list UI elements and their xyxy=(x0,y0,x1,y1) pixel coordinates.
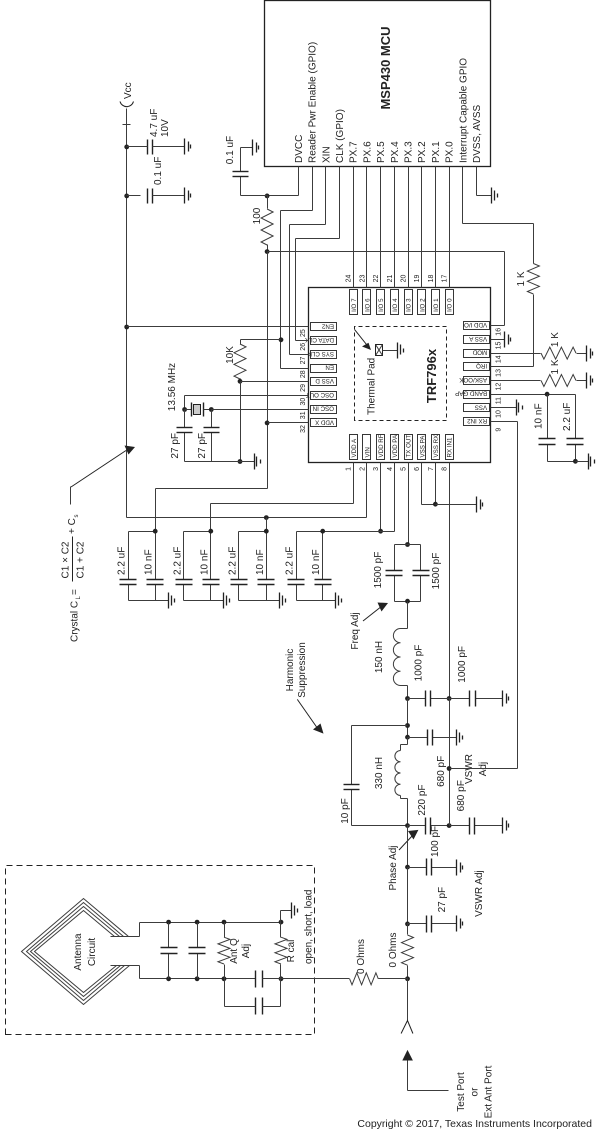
capacitor 1500 pF (upper) xyxy=(395,544,421,546)
wire main line west xyxy=(407,826,409,868)
svg-text:2.2 uF: 2.2 uF xyxy=(172,547,183,575)
capacitor 10 pF xyxy=(351,790,353,826)
ground (R cal) xyxy=(291,903,293,919)
svg-text:PX.4: PX.4 xyxy=(390,141,401,163)
svg-text:Phase Adj: Phase Adj xyxy=(388,845,399,890)
svg-text:RX IN2: RX IN2 xyxy=(467,417,488,424)
svg-text:PX.6: PX.6 xyxy=(362,141,373,163)
polarity + mark xyxy=(123,124,131,126)
capacitor 2.2 uF (pair 4) xyxy=(296,585,298,601)
Phase Adj arrow xyxy=(399,835,413,850)
ground (MOD 1K) xyxy=(586,346,588,362)
svg-text:PX.1: PX.1 xyxy=(431,141,442,163)
svg-text:15: 15 xyxy=(496,342,503,350)
wire TX_OUT xyxy=(408,463,410,545)
wire BAND_GAP ground bar xyxy=(548,461,576,463)
svg-text:27 pF: 27 pF xyxy=(170,433,181,459)
wire CLK to DATA_CLK xyxy=(339,167,341,239)
svg-text:5: 5 xyxy=(401,467,408,471)
formula arrow xyxy=(70,487,72,505)
svg-text:1: 1 xyxy=(346,467,353,471)
svg-text:2.2 uF: 2.2 uF xyxy=(562,403,573,431)
wire pair 3 tie xyxy=(239,531,267,533)
svg-text:150 nH: 150 nH xyxy=(374,641,385,673)
antenna dashed box xyxy=(6,866,315,1035)
capacitor C2 27 pF xyxy=(211,433,213,462)
wire pair 2 ground bar xyxy=(184,600,211,602)
TRF pin box OSC_IN (top) xyxy=(311,406,337,414)
wire RX_IN1 xyxy=(449,463,451,699)
svg-text:VSS RX: VSS RX xyxy=(433,435,440,458)
svg-text:30: 30 xyxy=(300,398,307,406)
resistor 0 Ohms (series) xyxy=(407,924,409,935)
wire VDD rail to pair1 xyxy=(156,488,268,490)
inductor 150 nH xyxy=(393,629,400,686)
node TX 1000pF junction xyxy=(405,696,410,701)
node VSS_RX junction xyxy=(433,502,438,507)
wire PX.1 to I/O_1 xyxy=(435,167,437,288)
ground (pair 4) xyxy=(335,593,337,609)
wire PX.5 to I/O_5 xyxy=(380,167,382,288)
TRF pin box VSS_PA (left) xyxy=(418,435,426,460)
svg-text:0.1 uF: 0.1 uF xyxy=(153,157,164,185)
svg-text:27 pF: 27 pF xyxy=(437,887,448,913)
wire VDD rail xyxy=(267,252,269,489)
svg-text:1 K: 1 K xyxy=(516,271,527,286)
svg-text:Suppression: Suppression xyxy=(297,642,308,698)
node crystal ground rail junction xyxy=(238,459,243,464)
svg-text:9: 9 xyxy=(496,428,503,432)
ground (pair 1) xyxy=(168,593,170,609)
svg-text:27 pF: 27 pF xyxy=(197,433,208,459)
resistor 100 xyxy=(267,196,269,209)
svg-text:+ C: + C xyxy=(67,518,78,534)
TRF pin box RX_IN1 (left) xyxy=(446,435,454,460)
node pair4 tie bottom xyxy=(320,529,325,534)
TRF pin box VDD_PA (left) xyxy=(391,435,399,460)
svg-text:10: 10 xyxy=(496,410,503,418)
svg-text:DATA CLK: DATA CLK xyxy=(304,336,334,343)
wire pair 3 ground bar xyxy=(239,600,267,602)
svg-text:Copyright © 2017, Texas Instru: Copyright © 2017, Texas Instruments Inco… xyxy=(357,1118,592,1130)
wire pair 4 ground bar xyxy=(297,600,323,602)
svg-text:IRQ: IRQ xyxy=(476,362,487,369)
wire 10K to crystal ground rail xyxy=(240,382,242,462)
wire VDD_I/O feed xyxy=(268,251,505,253)
capacitor C1 27 pF xyxy=(184,433,186,462)
svg-text:26: 26 xyxy=(300,343,307,351)
svg-text:R cal: R cal xyxy=(286,940,297,963)
svg-text:17: 17 xyxy=(442,275,449,283)
svg-text:Harmonic: Harmonic xyxy=(285,649,296,692)
ground (VSS pin10) xyxy=(516,400,518,416)
svg-text:3: 3 xyxy=(373,467,380,471)
thermal pad ground xyxy=(397,343,399,359)
wire pair 1 tie xyxy=(129,531,156,533)
svg-text:VDD X: VDD X xyxy=(315,418,334,425)
svg-text:Interrupt Capable GPIO: Interrupt Capable GPIO xyxy=(458,58,469,163)
TRF pin box DATA_CLK (top) xyxy=(311,337,337,345)
capacitor 2.2 uF (pair 3) xyxy=(238,585,240,601)
svg-text:0 Ohms: 0 Ohms xyxy=(356,939,367,974)
svg-text:16: 16 xyxy=(496,328,503,336)
node 1500pF left xyxy=(405,599,410,604)
TRF pin box I/O_3 (right) xyxy=(405,290,413,315)
node rail dots xyxy=(166,920,171,925)
svg-text:or: or xyxy=(470,1087,481,1097)
TRF pin box MOD (bottom) xyxy=(464,350,490,358)
wire VSS pin10 xyxy=(491,407,517,409)
node 10pF branch xyxy=(405,723,410,728)
resistor Ant Q Adj xyxy=(224,965,226,979)
svg-text:10K: 10K xyxy=(225,346,236,364)
node VDD_RF junction xyxy=(378,529,383,534)
ground (VSS_PA/RX) xyxy=(476,497,478,513)
node pair2 feed xyxy=(208,529,213,534)
svg-text:22: 22 xyxy=(373,275,380,283)
svg-text:OSC OUT: OSC OUT xyxy=(306,391,334,398)
node pair3 tie junction xyxy=(264,529,269,534)
TRF pin box VIN (left) xyxy=(363,435,371,460)
svg-text:DVCC: DVCC xyxy=(294,135,305,163)
wire VDD_A to pair2 xyxy=(353,463,355,504)
capacitor 10 nF (BAND_GAP) xyxy=(547,445,549,462)
TRF pin box I/O_1 (right) xyxy=(432,290,440,315)
capacitor 220 pF xyxy=(408,825,426,827)
svg-text:8: 8 xyxy=(442,467,449,471)
antenna tap terminators xyxy=(111,936,140,938)
wire OSC_OUT xyxy=(185,395,309,397)
capacitor 10 nF (pair 3) xyxy=(266,585,268,601)
crystal Y1 13.56 MHz xyxy=(185,409,192,411)
svg-text:EN2: EN2 xyxy=(321,322,334,329)
capacitor 100 pF xyxy=(408,867,427,869)
svg-text:1000 pF: 1000 pF xyxy=(457,646,468,683)
svg-text:Ext Ant Port: Ext Ant Port xyxy=(484,1065,495,1118)
svg-text:10 nF: 10 nF xyxy=(534,403,545,429)
wire XIN to SYS_CLK xyxy=(325,167,327,225)
wire BAND_GAP xyxy=(491,394,576,396)
wire RX line xyxy=(449,699,451,826)
wire PX.3 to I/O_3 xyxy=(408,167,410,288)
TRF pin box VSS_RX (left) xyxy=(432,435,440,460)
wire antenna top rail xyxy=(140,922,281,924)
svg-text:27: 27 xyxy=(300,357,307,365)
TRF pin box VSS_A (bottom) xyxy=(464,336,490,344)
wire VSS_D stub xyxy=(241,381,309,383)
TRF pin box OSC_OUT (top) xyxy=(311,392,337,400)
svg-text:20: 20 xyxy=(401,275,408,283)
wire pair4 to VDD_RF/PA xyxy=(323,531,381,533)
svg-text:RX IN1: RX IN1 xyxy=(447,437,454,458)
svg-text:1500 pF: 1500 pF xyxy=(373,552,384,589)
capacitor antenna C b xyxy=(197,954,199,979)
wire EN2 to Vcc xyxy=(127,326,309,328)
svg-text:10 nF: 10 nF xyxy=(255,549,266,575)
svg-text:11: 11 xyxy=(496,397,503,404)
wire to test port arrow xyxy=(407,979,409,1021)
svg-text:6: 6 xyxy=(414,467,421,471)
svg-text:1 K: 1 K xyxy=(550,332,561,347)
capacitor 10 nF (pair 4) xyxy=(322,585,324,601)
resistor 10K xyxy=(241,339,281,341)
thermal pad dashed box xyxy=(355,327,447,421)
svg-text:VSS PA: VSS PA xyxy=(419,435,426,458)
wire PX.4 to I/O_4 xyxy=(394,167,396,288)
capacitor tuning C (series) xyxy=(255,971,257,988)
svg-text:Adj: Adj xyxy=(241,944,252,958)
node 220pF top xyxy=(405,823,410,828)
svg-text:PX.0: PX.0 xyxy=(445,141,456,163)
wire 1K to Interrupt GPIO xyxy=(533,224,535,264)
svg-text:=: = xyxy=(70,589,81,595)
svg-text:TRF796x: TRF796x xyxy=(424,348,439,403)
TRF pin box BAND_GAP (bottom) xyxy=(464,391,490,399)
ground (Vcc 0.1uF) xyxy=(184,188,186,204)
wire OSC_IN xyxy=(212,409,309,411)
wire MCU decoupling branch xyxy=(241,195,268,197)
ground (BAND_GAP) xyxy=(588,454,590,470)
wire 1500pF left bus xyxy=(395,601,421,603)
TRF pin box EN (top) xyxy=(311,365,337,373)
svg-text:31: 31 xyxy=(300,411,307,419)
node crystal top xyxy=(182,407,187,412)
wire TX to 330nH xyxy=(407,738,409,745)
svg-text:1500 pF: 1500 pF xyxy=(431,553,442,590)
resistor 1K (ASK/OOK) xyxy=(541,375,576,387)
node BAND_GAP 10nF junction xyxy=(545,392,550,397)
R cal ground wire xyxy=(280,911,282,923)
svg-text:PX.2: PX.2 xyxy=(417,141,428,163)
svg-text:SYS CLK: SYS CLK xyxy=(307,350,334,357)
node 100pF branch xyxy=(405,865,410,870)
svg-text:CLK (GPIO): CLK (GPIO) xyxy=(335,109,346,163)
capacitor tuning C (bypass loop) xyxy=(224,979,226,1007)
svg-text:Ant Q: Ant Q xyxy=(229,938,240,964)
TRF pin box VSS (bottom) xyxy=(464,404,490,412)
open arrow (port) xyxy=(401,1021,413,1034)
wire main line xyxy=(407,868,409,924)
svg-text:Vcc: Vcc xyxy=(123,82,134,99)
svg-text:14: 14 xyxy=(496,355,503,363)
svg-text:VSWR Adj: VSWR Adj xyxy=(474,870,485,917)
svg-text:I/O 2: I/O 2 xyxy=(419,298,426,312)
ground (pair 2) xyxy=(223,593,225,609)
svg-text:C1 + C2: C1 + C2 xyxy=(76,541,87,578)
svg-text:DVSS, AVSS: DVSS, AVSS xyxy=(472,104,483,163)
capacitor 0.1 uF (Vcc) xyxy=(127,195,141,197)
svg-text:23: 23 xyxy=(359,275,366,283)
ground (crystal) xyxy=(254,454,256,470)
svg-text:I/O 3: I/O 3 xyxy=(406,298,413,312)
svg-text:100 pF: 100 pF xyxy=(430,826,441,857)
svg-text:21: 21 xyxy=(387,275,394,283)
wire pair 2 tie xyxy=(184,531,211,533)
wire VSS_A xyxy=(491,339,505,341)
TRF pin box VDD_A (left) xyxy=(350,435,358,460)
TRF pin box IRQ (bottom) xyxy=(464,363,490,371)
svg-text:I/O 6: I/O 6 xyxy=(365,298,372,312)
svg-text:1 K: 1 K xyxy=(550,359,561,374)
svg-text:13: 13 xyxy=(496,369,503,377)
wire DVSS xyxy=(476,167,478,196)
TRF pin box VSS_D (top) xyxy=(311,378,337,386)
node crystal bottom xyxy=(209,407,214,412)
node BAND_GAP gnd junction xyxy=(573,459,578,464)
resistor 0 Ohms (cal line) xyxy=(350,973,379,985)
capacitor 1000 pF (coupling) xyxy=(408,698,426,700)
ground (680pF upper) xyxy=(456,730,458,746)
svg-text:VIN: VIN xyxy=(365,447,372,457)
wire VDD_RF xyxy=(380,463,382,532)
svg-text:10 pF: 10 pF xyxy=(340,798,351,824)
svg-text:4.7 uF: 4.7 uF xyxy=(149,109,160,137)
TRF pin box VDD_RF (left) xyxy=(377,435,385,460)
svg-text:I/O 5: I/O 5 xyxy=(378,298,385,312)
svg-text:I/O 1: I/O 1 xyxy=(433,298,440,312)
svg-text:680 pF: 680 pF xyxy=(436,756,447,787)
wire pair 4 tie xyxy=(297,531,323,533)
TRF pin box I/O_7 (right) xyxy=(350,290,358,315)
ground (4.7uF) xyxy=(184,139,186,155)
wire Vcc rail xyxy=(126,109,128,518)
svg-text:10 nF: 10 nF xyxy=(311,549,322,575)
svg-text:2.2 uF: 2.2 uF xyxy=(117,547,128,575)
TRF pin box VDD_X (top) xyxy=(311,419,337,427)
node RX pin9 tap xyxy=(447,766,452,771)
svg-text:OSC IN: OSC IN xyxy=(313,405,334,412)
svg-text:680 pF: 680 pF xyxy=(456,780,467,811)
svg-text:4: 4 xyxy=(387,467,394,471)
capacitor 10 pF branch wire xyxy=(352,725,408,727)
wire RX_IN2 link xyxy=(450,768,518,770)
capacitor 2.2 uF (pair 2) xyxy=(183,585,185,601)
node VSS_D junction xyxy=(238,379,243,384)
svg-text:Reader Pwr Enable (GPIO): Reader Pwr Enable (GPIO) xyxy=(308,42,319,163)
resistor 1K (IRQ) xyxy=(527,264,539,295)
wire TX line xyxy=(407,699,409,738)
svg-text:VDD A: VDD A xyxy=(351,438,358,457)
wire VSS_PA xyxy=(421,463,423,505)
svg-text:MOD: MOD xyxy=(472,349,487,356)
svg-text:25: 25 xyxy=(300,329,307,337)
capacitor 2.2 uF (pair 1) xyxy=(128,585,130,601)
wire MOD xyxy=(491,353,541,355)
svg-text:2: 2 xyxy=(359,467,366,471)
svg-text:PX.5: PX.5 xyxy=(376,141,387,163)
wire crystal ground rail xyxy=(185,461,255,463)
wire PX.7 to I/O_7 xyxy=(353,167,355,288)
Vcc supply symbol xyxy=(120,102,134,107)
TRF pin box RX_IN2 (bottom) xyxy=(464,418,490,426)
svg-text:VDD I/O: VDD I/O xyxy=(464,321,487,328)
node antenna junction xyxy=(405,976,410,981)
svg-text:I/O 4: I/O 4 xyxy=(392,298,399,312)
svg-text:C1 × C2: C1 × C2 xyxy=(61,541,72,578)
svg-text:I/O 7: I/O 7 xyxy=(351,298,358,312)
svg-text:BAND GAP: BAND GAP xyxy=(455,390,487,397)
resistor 1K (MOD) xyxy=(541,347,576,359)
node Vcc 0.1uF junction xyxy=(124,194,129,199)
ground (680pF lower) xyxy=(502,818,504,834)
node 27pF branch xyxy=(405,922,410,927)
svg-text:open, short, load: open, short, load xyxy=(304,890,315,965)
wire Reader Pwr Enable to EN xyxy=(312,167,314,211)
wire Vcc to VIN xyxy=(127,517,367,519)
inductor 330 nH xyxy=(395,751,401,796)
svg-text:I/O 0: I/O 0 xyxy=(447,298,454,312)
wire DVCC xyxy=(298,167,300,196)
node Vcc 4.7uF junction xyxy=(124,145,129,150)
svg-text:13.56 MHz: 13.56 MHz xyxy=(167,363,178,411)
TRF pin box I/O_0 (right) xyxy=(446,290,454,315)
capacitor 10 nF (pair 1) xyxy=(155,585,157,601)
capacitor 10 nF (pair 2) xyxy=(210,585,212,601)
svg-text:PX.3: PX.3 xyxy=(404,141,415,163)
svg-text:Crystal C: Crystal C xyxy=(70,601,81,642)
svg-text:TX OUT: TX OUT xyxy=(406,435,413,458)
svg-text:100: 100 xyxy=(252,207,263,224)
wire VDD_X stub xyxy=(268,422,309,424)
node VDD_X junction xyxy=(265,421,270,426)
svg-text:Test Port: Test Port xyxy=(456,1072,467,1112)
node pair1 feed xyxy=(153,529,158,534)
wire TX line to 150nH xyxy=(407,602,409,629)
thermal pad 33 symbol xyxy=(376,345,383,356)
resistor R cal xyxy=(280,965,282,979)
Harmonic Suppression arrow xyxy=(297,699,318,729)
capacitor 680 pF (VSWR Adj upper) xyxy=(408,737,428,739)
node VDD / VDD_I/O junction xyxy=(265,249,270,254)
ground (pair 3) xyxy=(279,593,281,609)
wire antenna bottom rail xyxy=(140,978,256,980)
wire PX.6 to I/O_6 xyxy=(366,167,368,288)
capacitor 2.2 uF (BAND_GAP) xyxy=(575,445,577,462)
ground (100pF) xyxy=(456,860,458,876)
svg-text:EN: EN xyxy=(325,364,334,371)
ground (ASK 1K) xyxy=(586,373,588,389)
ground (27pF) xyxy=(456,916,458,932)
antenna tap wires xyxy=(139,923,141,937)
ground (1000pF) xyxy=(502,691,504,707)
TRF pin box VDD_I/O (bottom) xyxy=(464,322,490,330)
TRF pin box I/O_5 (right) xyxy=(377,290,385,315)
wire ASK/OOK xyxy=(491,380,541,382)
svg-text:VSS D: VSS D xyxy=(315,377,334,384)
thermal pad ground wire xyxy=(383,350,398,352)
node pair3 feed xyxy=(264,515,269,520)
node EN2 junction xyxy=(124,325,129,330)
node 1500pF right xyxy=(405,542,410,547)
ground (VSS_A) xyxy=(504,332,506,348)
MSP430 MCU box U2 xyxy=(265,1,491,167)
capacitor 1500 pF (lower) xyxy=(420,576,422,602)
svg-text:220 pF: 220 pF xyxy=(417,784,428,815)
thermal pad arrow xyxy=(355,330,369,348)
capacitor 4.7 uF 10V xyxy=(127,146,141,148)
svg-text:12: 12 xyxy=(496,383,503,391)
node 680pF VSWR branch xyxy=(405,735,410,740)
wire VDD_PA xyxy=(394,463,396,532)
wire pair 1 ground bar xyxy=(129,600,156,602)
wire PX.0 to I/O_0 xyxy=(449,167,451,288)
svg-text:ASK/OOK: ASK/OOK xyxy=(458,376,487,383)
capacitor 1000 pF (to gnd) xyxy=(450,698,470,700)
svg-text:Antenna: Antenna xyxy=(73,933,84,971)
TRF pin box I/O_4 (right) xyxy=(391,290,399,315)
ground (DVSS) xyxy=(491,188,493,204)
test port arrow xyxy=(402,1050,413,1061)
